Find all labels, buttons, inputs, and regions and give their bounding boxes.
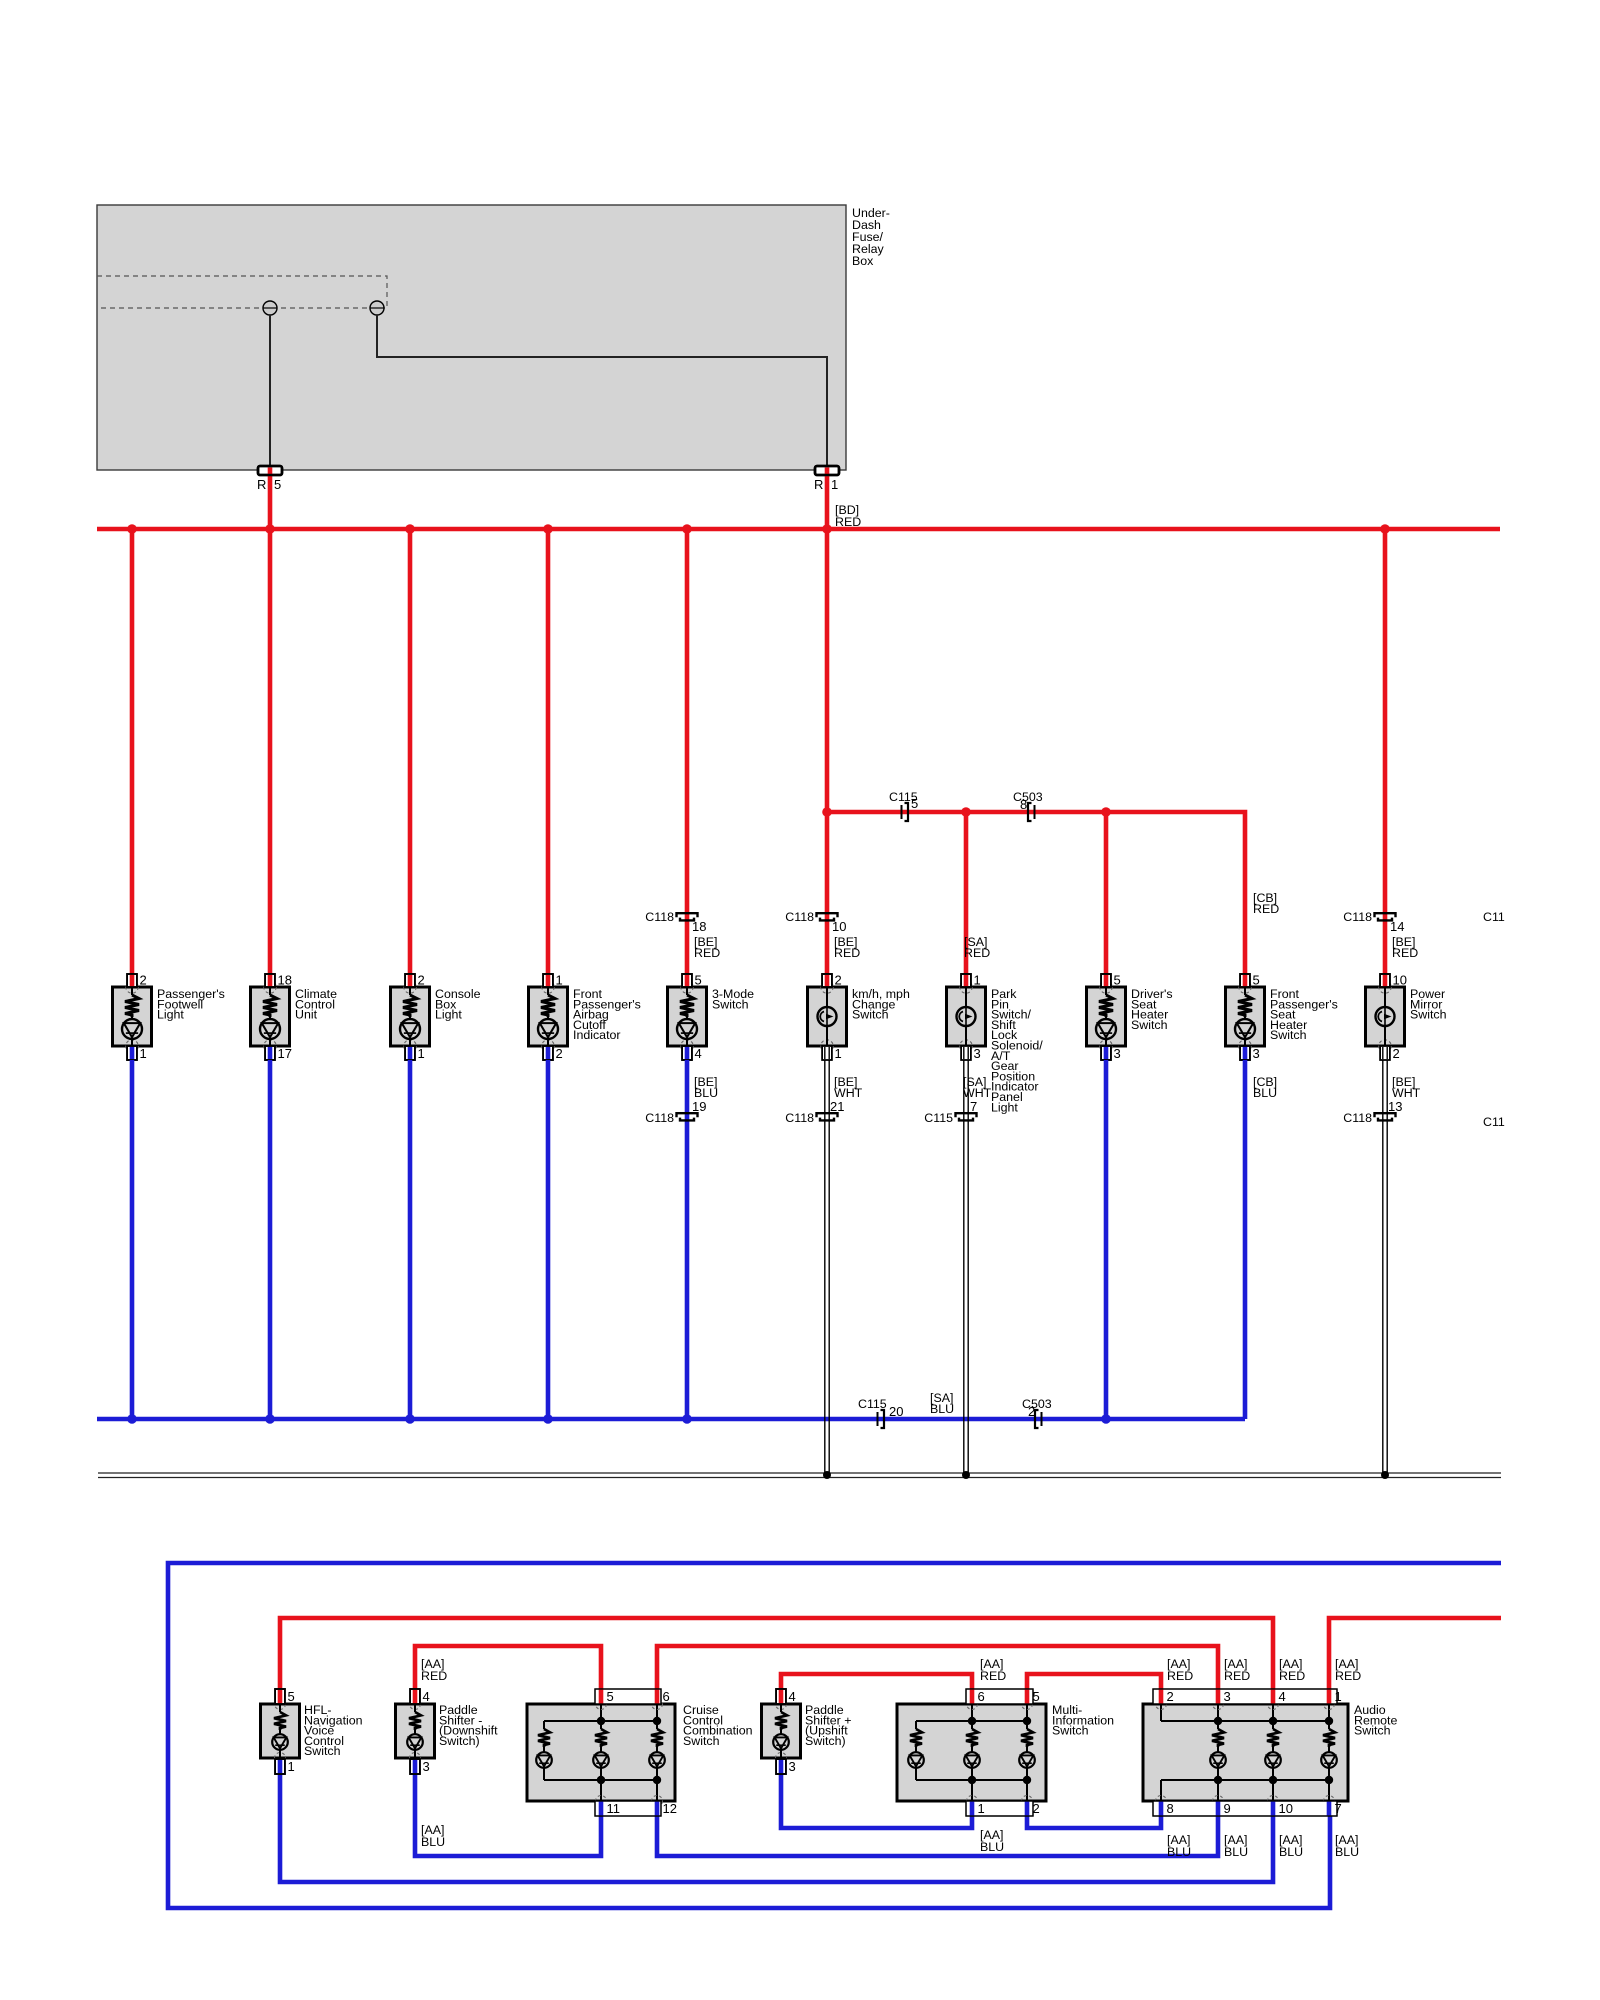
svg-text:WHT: WHT: [1392, 1086, 1421, 1100]
svg-text:12: 12: [663, 1801, 677, 1816]
svg-text:RED: RED: [1224, 1669, 1250, 1683]
wire red vertical x=687: [685, 529, 690, 976]
svg-text:C115: C115: [924, 1111, 953, 1125]
svg-text:RED: RED: [421, 1669, 447, 1683]
svg-text:C11: C11: [1483, 1115, 1505, 1129]
svg-text:Box: Box: [852, 254, 874, 268]
svg-text:7: 7: [970, 1099, 977, 1114]
pin 1 (bottom) of Passenger's Footwell Light: [127, 1046, 147, 1061]
svg-text:9: 9: [1224, 1801, 1231, 1816]
fuse terminal circle A: [263, 301, 277, 315]
pin 5 (top) of HFL- Navigation Voice Control Switch: [275, 1689, 295, 1704]
svg-text:5: 5: [911, 796, 918, 811]
svg-text:10: 10: [832, 919, 846, 934]
svg-text:C11: C11: [1483, 910, 1505, 924]
resistor in Front Passenger's Airbag Cutoff Indicator: [541, 987, 555, 1019]
wire red cruise pin 6 to audio pin 3: [657, 1646, 1218, 1689]
svg-text:BLU: BLU: [930, 1402, 954, 1416]
switch/LED symbol in Park Pin Switch/ Shift Lock Solenoid/ A/T Gear Position Indicator Panel Light: [957, 987, 976, 1046]
label [AA] BLU (audio pin 10): [1279, 1833, 1303, 1859]
fuse terminal circle B: [370, 301, 384, 315]
wire [BD] RED horizontal bus: [97, 527, 1500, 532]
pin 18 (top) of Climate Control Unit: [265, 973, 292, 988]
wire blue paddle-upshift pin 3 to multi pin 1: [781, 1774, 972, 1828]
svg-text:3: 3: [1114, 1046, 1121, 1061]
svg-text:5: 5: [1033, 1689, 1040, 1704]
lamp in Driver's Seat Heater Switch: [1096, 1019, 1116, 1046]
label [AA] RED (audio pin 1): [1335, 1657, 1361, 1683]
svg-text:Light: Light: [991, 1100, 1018, 1114]
svg-text:C118: C118: [645, 1111, 674, 1125]
svg-text:RED: RED: [964, 946, 990, 960]
pin 4 (bottom) of 3-Mode Switch: [682, 1046, 702, 1061]
lamp in HFL- Navigation Voice Control Switch: [272, 1734, 288, 1758]
connector C118 pin 18 (3-mode switch feed): [645, 910, 706, 934]
pin 1 (top) of Park Pin Switch/ Shift Lock Solenoid/ A/T Gear Position Indicator Panel Light: [961, 973, 981, 988]
svg-text:1: 1: [978, 1801, 985, 1816]
pin 1 (bottom) of km/h, mph Change Switch: [822, 1046, 842, 1061]
svg-text:C503: C503: [1022, 1397, 1052, 1411]
wire blue vertical x=270: [268, 1060, 273, 1419]
label [AA] BLU (audio pin 8): [1167, 1833, 1191, 1859]
component box HFL- Navigation Voice Control Switch: [261, 1699, 300, 1764]
cropped text C11 right edge top: [1483, 910, 1505, 924]
label Audio Remote Switch: [1354, 1703, 1397, 1738]
svg-text:BLU: BLU: [1167, 1845, 1191, 1859]
component box Climate Control Unit: [251, 981, 290, 1052]
wire red paddle-downshift to cruise pin 5: [415, 1646, 601, 1689]
svg-text:C118: C118: [645, 910, 674, 924]
pins 6/5 (top) of multi-information switch: [966, 1689, 1040, 1704]
component box Driver's Seat Heater Switch: [1087, 981, 1126, 1052]
label [CB] RED x=1245: [1253, 891, 1279, 916]
svg-text:RED: RED: [694, 946, 720, 960]
label [AA] RED (audio pin 2): [1167, 1657, 1193, 1683]
svg-text:3: 3: [423, 1759, 430, 1774]
wire red vertical x=827 (bus to km/h switch): [825, 529, 830, 976]
pin 2 (bottom) of Power Mirror Switch: [1380, 1046, 1400, 1061]
pins 5/6 (top) of cruise control combination switch: [595, 1689, 670, 1704]
component box Front Passenger's Seat Heater Switch: [1226, 981, 1265, 1052]
svg-text:1: 1: [835, 1046, 842, 1061]
wire fuse A to terminal R15: [269, 315, 271, 466]
pins 2/3/4/1 (top) of audio remote switch: [1153, 1689, 1342, 1704]
pin 4 (top) of Paddle Shifter + (Upshift Switch): [776, 1689, 796, 1704]
component box Console Box Light: [391, 981, 430, 1052]
label [BE] RED x=827: [834, 935, 860, 960]
svg-text:BLU: BLU: [980, 1840, 1004, 1854]
svg-text:RED: RED: [980, 1669, 1006, 1683]
label Front Passenger's Airbag Cutoff Indicator: [573, 987, 641, 1042]
label HFL- Navigation Voice Control Switch: [304, 1703, 363, 1758]
svg-text:WHT: WHT: [963, 1086, 992, 1100]
wire red vertical x=410: [408, 529, 413, 976]
svg-text:BLU: BLU: [421, 1835, 445, 1849]
svg-text:BLU: BLU: [1224, 1845, 1248, 1859]
connector C503 pin 8 on red branch: [1013, 790, 1043, 821]
svg-text:Light: Light: [157, 1008, 184, 1022]
label km/h, mph Change Switch: [852, 987, 910, 1022]
pin 1 (bottom) of Console Box Light: [405, 1046, 425, 1061]
label [BD] RED: [835, 503, 861, 529]
white wire power mirror pin 2 to ground line: [1383, 1060, 1387, 1474]
resistor in Console Box Light: [403, 987, 417, 1019]
pin 1 (bottom) of HFL- Navigation Voice Control Switch: [275, 1759, 295, 1774]
label [SA] RED x=966: [964, 935, 990, 960]
svg-text:8: 8: [1167, 1801, 1174, 1816]
svg-text:Light: Light: [435, 1008, 462, 1022]
wire blue multi pin 2 to audio pin 8: [1027, 1816, 1161, 1828]
resistor in Climate Control Unit: [263, 987, 277, 1019]
label [SA] WHT + connector C115 pin 7: [924, 1075, 991, 1125]
svg-text:4: 4: [789, 1689, 796, 1704]
lamp in Paddle Shifter + (Upshift Switch): [773, 1734, 789, 1758]
resistor in Paddle Shifter + (Upshift Switch): [775, 1704, 787, 1734]
ground double line: [98, 1473, 1501, 1478]
wire blue cruise pin 12 to audio pin 9: [657, 1816, 1218, 1856]
svg-text:1: 1: [1335, 1689, 1342, 1704]
svg-text:13: 13: [1388, 1099, 1402, 1114]
label Paddle Shifter - (Downshift Switch): [439, 1703, 498, 1748]
svg-text:3: 3: [1253, 1046, 1260, 1061]
svg-text:2: 2: [556, 1046, 563, 1061]
svg-text:RED: RED: [1167, 1669, 1193, 1683]
svg-text:RED: RED: [835, 515, 861, 529]
wire red from R11 to bus: [815, 466, 839, 529]
lamp in Console Box Light: [400, 1019, 420, 1046]
svg-text:2: 2: [140, 973, 147, 988]
svg-text:5: 5: [695, 973, 702, 988]
wire red rail y=1618: [280, 1618, 1273, 1689]
pins 8/9/10/7 (bottom) of audio remote switch: [1153, 1801, 1342, 1816]
svg-text:RED: RED: [834, 946, 860, 960]
cropped text C11 right edge bottom: [1483, 1115, 1505, 1129]
svg-text:3: 3: [789, 1759, 796, 1774]
component box km/h, mph Change Switch: [808, 981, 847, 1052]
wire blue paddle-downshift pin 3 to cruise pin 11: [415, 1774, 601, 1856]
wire blue vertical x=132: [130, 1060, 135, 1419]
terminal R15: [257, 466, 282, 492]
pin 5 (top) of 3-Mode Switch: [682, 973, 702, 988]
component box Power Mirror Switch: [1366, 981, 1405, 1052]
svg-text:6: 6: [663, 1689, 670, 1704]
svg-text:18: 18: [278, 973, 292, 988]
svg-text:Switch: Switch: [304, 1744, 341, 1758]
svg-text:1: 1: [831, 477, 838, 492]
svg-text:Switch: Switch: [683, 1734, 720, 1748]
svg-text:R: R: [814, 477, 823, 492]
wire red multi pin 5 to audio pin 2: [1027, 1674, 1161, 1689]
label [AA] RED (multi pin 6): [980, 1657, 1006, 1683]
wire red vertical x=1385: [1383, 529, 1388, 976]
svg-text:20: 20: [889, 1404, 903, 1419]
white wire park pin switch pin 3 to ground line: [964, 1060, 968, 1474]
svg-text:5: 5: [1253, 973, 1260, 988]
svg-text:1: 1: [140, 1046, 147, 1061]
connector C115 pin 20 on blue bus: [858, 1397, 903, 1428]
component box Cruise Control Combination Switch: [527, 1699, 675, 1807]
svg-text:R: R: [257, 477, 266, 492]
wire blue vertical x=548: [546, 1060, 551, 1419]
svg-text:1: 1: [288, 1759, 295, 1774]
svg-text:RED: RED: [1279, 1669, 1305, 1683]
component box Paddle Shifter + (Upshift Switch): [762, 1699, 801, 1764]
pin 3 (bottom) of Paddle Shifter + (Upshift Switch): [776, 1759, 796, 1774]
component box Paddle Shifter - (Downshift Switch): [396, 1699, 435, 1764]
label [AA] RED (paddle downshift): [421, 1657, 447, 1683]
wire blue vertical x=1106: [1104, 1060, 1109, 1419]
svg-text:5: 5: [607, 1689, 614, 1704]
pin 1 (top) of Front Passenger's Airbag Cutoff Indicator: [543, 973, 563, 988]
svg-text:Switch: Switch: [712, 997, 749, 1011]
svg-text:Switch: Switch: [1270, 1028, 1307, 1042]
switch/LED symbol in km/h, mph Change Switch: [818, 987, 837, 1046]
svg-text:1: 1: [418, 1046, 425, 1061]
wire red vertical x=132: [130, 529, 135, 976]
pin 3 (bottom) of Driver's Seat Heater Switch: [1101, 1046, 1121, 1061]
svg-text:14: 14: [1390, 919, 1404, 934]
svg-text:BLU: BLU: [1253, 1086, 1277, 1100]
junction dots on red branch y=812: [822, 807, 1111, 817]
ground junction dots: [823, 1471, 1389, 1479]
svg-text:Switch: Switch: [1410, 1008, 1447, 1022]
label [BE] RED x=687: [694, 935, 720, 960]
wire blue HFL pin 1 to audio pin 10: [280, 1774, 1273, 1882]
svg-text:Switch: Switch: [1131, 1018, 1168, 1032]
wire blue bus y=1419: [97, 1417, 1245, 1422]
pin 2 (bottom) of Front Passenger's Airbag Cutoff Indicator: [543, 1046, 563, 1061]
label Under-Dash Fuse/Relay Box: [852, 206, 890, 268]
label Cruise Control Combination Switch: [683, 1703, 753, 1748]
connector C115 pin 5 on red branch: [889, 790, 918, 821]
svg-text:C115: C115: [858, 1397, 887, 1411]
connector C118 pin 10 (km/h switch feed): [785, 910, 846, 934]
lamp in Front Passenger's Seat Heater Switch: [1235, 1019, 1255, 1046]
lamp in Climate Control Unit: [260, 1019, 280, 1046]
svg-text:5: 5: [1114, 973, 1121, 988]
wire red vertical x=270: [268, 529, 273, 976]
lamp in Paddle Shifter - (Downshift Switch): [407, 1734, 423, 1758]
svg-text:6: 6: [978, 1689, 985, 1704]
component box Front Passenger's Airbag Cutoff Indicator: [529, 981, 568, 1052]
svg-text:Switch: Switch: [1354, 1724, 1391, 1738]
pin 17 (bottom) of Climate Control Unit: [265, 1046, 292, 1061]
wire red audio pin 1 feed: [1329, 1618, 1501, 1689]
connector C118 pin 14 (power mirror feed): [1343, 910, 1404, 934]
label [BE] RED x=1385: [1392, 935, 1418, 960]
wire blue vertical x=410: [408, 1060, 413, 1419]
label [AA] BLU (paddle downshift): [421, 1823, 445, 1849]
svg-text:4: 4: [423, 1689, 430, 1704]
svg-text:21: 21: [830, 1099, 844, 1114]
label [SA] BLU near park pin ground: [930, 1391, 954, 1416]
svg-text:1: 1: [556, 973, 563, 988]
pins 11/12 (bottom) of cruise control combination switch: [595, 1801, 677, 1816]
svg-text:8: 8: [1020, 797, 1027, 812]
wire blue vertical x=1245 (corner to bus): [1243, 1060, 1248, 1419]
label Multi-Information Switch: [1052, 1703, 1114, 1738]
white wire km/h switch pin 1 to ground line: [825, 1060, 829, 1474]
svg-text:17: 17: [278, 1046, 292, 1061]
label [BE] WHT + connector C118 pin 13: [1343, 1075, 1420, 1125]
under-dash fuse/relay box: [97, 205, 846, 470]
connector C503 pin 2 on blue bus: [1022, 1397, 1052, 1428]
switch/LED symbol in Power Mirror Switch: [1376, 987, 1395, 1046]
svg-text:2: 2: [1028, 1404, 1035, 1419]
resistor in Passenger's Footwell Light: [125, 987, 139, 1019]
wire blue vertical x=687: [685, 1060, 690, 1419]
svg-text:10: 10: [1279, 1801, 1293, 1816]
label Console Box Light: [435, 987, 481, 1022]
dashed internal bus in fuse box: [97, 276, 387, 308]
wire red branch y=812 to seat heater switches: [827, 812, 1245, 976]
svg-text:BLU: BLU: [1279, 1845, 1303, 1859]
label Front Passenger's Seat Heater Switch: [1270, 987, 1338, 1042]
component box 3-Mode Switch: [668, 981, 707, 1052]
lamp in Front Passenger's Airbag Cutoff Indicator: [538, 1019, 558, 1046]
label [AA] BLU (audio pin 7): [1335, 1833, 1359, 1859]
pin 3 (bottom) of Front Passenger's Seat Heater Switch: [1240, 1046, 1260, 1061]
svg-text:5: 5: [288, 1689, 295, 1704]
lamp in Passenger's Footwell Light: [122, 1019, 142, 1046]
label [AA] BLU (audio pin 9): [1224, 1833, 1248, 1859]
svg-text:10: 10: [1393, 973, 1407, 988]
svg-text:7: 7: [1335, 1801, 1342, 1816]
pin 2 (top) of Console Box Light: [405, 973, 425, 988]
svg-text:1: 1: [974, 973, 981, 988]
svg-text:Switch): Switch): [805, 1734, 846, 1748]
svg-text:4: 4: [695, 1046, 702, 1061]
svg-text:BLU: BLU: [1335, 1845, 1359, 1859]
label [AA] BLU (multi pin 1): [980, 1828, 1004, 1854]
svg-text:BLU: BLU: [694, 1086, 718, 1100]
svg-text:RED: RED: [1392, 946, 1418, 960]
label Climate Control Unit: [295, 987, 337, 1022]
svg-text:Indicator: Indicator: [573, 1028, 621, 1042]
component box Audio Remote Switch: [1143, 1699, 1348, 1807]
svg-text:2: 2: [1167, 1689, 1174, 1704]
resistor in HFL- Navigation Voice Control Switch: [274, 1704, 286, 1734]
pin 3 (bottom) of Paddle Shifter - (Downshift Switch): [410, 1759, 430, 1774]
svg-text:2: 2: [418, 973, 425, 988]
label 3-Mode Switch: [712, 987, 754, 1011]
svg-text:19: 19: [692, 1099, 706, 1114]
junction dots on red bus: [127, 524, 1390, 534]
component box Multi-Information Switch: [897, 1699, 1046, 1807]
svg-text:18: 18: [692, 919, 706, 934]
resistor in 3-Mode Switch: [680, 987, 694, 1019]
label Driver's Seat Heater Switch: [1131, 987, 1173, 1032]
svg-text:C118: C118: [785, 910, 814, 924]
component box Park Pin Switch/ Shift Lock Solenoid/ A/T Gear Position Indicator Panel Light: [947, 981, 986, 1052]
label Park Pin Switch/ Shift Lock Solenoid/ A/T Gear Position Indicator Panel Light: [991, 987, 1043, 1114]
svg-text:11: 11: [607, 1801, 621, 1816]
label Passenger's Footwell Light: [157, 987, 225, 1022]
svg-text:C118: C118: [785, 1111, 814, 1125]
wire red vertical x=548: [546, 529, 551, 976]
pin 5 (top) of Driver's Seat Heater Switch: [1101, 973, 1121, 988]
svg-text:Unit: Unit: [295, 1008, 318, 1022]
resistor in Front Passenger's Seat Heater Switch: [1238, 987, 1252, 1019]
svg-text:Switch): Switch): [439, 1734, 480, 1748]
svg-text:WHT: WHT: [834, 1086, 863, 1100]
label [BE] WHT + connector C118 pin 21: [785, 1075, 862, 1125]
svg-text:3: 3: [974, 1046, 981, 1061]
svg-text:2: 2: [1033, 1801, 1040, 1816]
pin 3 (bottom) of Park Pin Switch/ Shift Lock Solenoid/ A/T Gear Position Indicator Panel Light: [961, 1046, 981, 1061]
component box Passenger's Footwell Light: [113, 981, 152, 1052]
label [CB] BLU x=1245: [1253, 1075, 1277, 1100]
resistor in Driver's Seat Heater Switch: [1099, 987, 1113, 1019]
label Paddle Shifter + (Upshift Switch): [805, 1703, 852, 1748]
resistor in Paddle Shifter - (Downshift Switch): [409, 1704, 421, 1734]
connector C118 pin 19 (3-mode switch ground): [645, 1075, 718, 1125]
label [AA] RED (audio pin 4): [1279, 1657, 1305, 1683]
label [AA] RED (audio pin 3): [1224, 1657, 1250, 1683]
svg-text:2: 2: [835, 973, 842, 988]
svg-text:2: 2: [1393, 1046, 1400, 1061]
wire red from R15 to bus: [258, 466, 282, 529]
wire red paddle-upshift to multi pin 6: [781, 1674, 972, 1689]
pin 2 (top) of Passenger's Footwell Light: [127, 973, 147, 988]
pin 10 (top) of Power Mirror Switch: [1380, 973, 1407, 988]
svg-text:5: 5: [274, 477, 281, 492]
pin 2 (top) of km/h, mph Change Switch: [822, 973, 842, 988]
label Power Mirror Switch: [1410, 987, 1447, 1022]
svg-text:Switch: Switch: [852, 1008, 889, 1022]
svg-text:C503: C503: [1013, 790, 1043, 804]
svg-text:RED: RED: [1335, 1669, 1361, 1683]
terminal R11: [814, 466, 839, 492]
svg-text:RED: RED: [1253, 902, 1279, 916]
pin 4 (top) of Paddle Shifter - (Downshift Switch): [410, 1689, 430, 1704]
svg-text:C118: C118: [1343, 910, 1372, 924]
pin 5 (top) of Front Passenger's Seat Heater Switch: [1240, 973, 1260, 988]
lamp in 3-Mode Switch: [677, 1019, 697, 1046]
junction dots on blue bus: [127, 1414, 1111, 1424]
svg-text:3: 3: [1224, 1689, 1231, 1704]
svg-text:4: 4: [1279, 1689, 1286, 1704]
svg-text:C118: C118: [1343, 1111, 1372, 1125]
svg-text:Switch: Switch: [1052, 1724, 1089, 1738]
wire fuse B to terminal R11: [377, 315, 827, 466]
wire blue outer loop (audio pin 7 circuit): [168, 1563, 1501, 1908]
pins 1/2 (bottom) of multi-information switch: [966, 1801, 1040, 1816]
